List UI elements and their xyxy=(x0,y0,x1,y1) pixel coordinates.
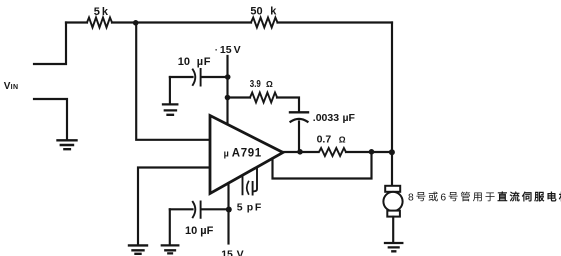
node dot V+/cap xyxy=(225,74,231,80)
svg-text:VIN: VIN xyxy=(4,81,19,92)
ground top 10uF xyxy=(163,104,177,114)
ground below Vin xyxy=(58,140,77,149)
wire motor to ground xyxy=(392,217,394,242)
node dot output/cap xyxy=(297,149,303,155)
node dot output/sense xyxy=(369,149,375,155)
svg-text:15V: 15V xyxy=(221,248,243,256)
wire V+ pin xyxy=(226,56,228,124)
wire 5k to 50k xyxy=(112,21,251,23)
resistor R4 0.7 ohm xyxy=(319,148,346,156)
wire top-left from Vin corner to 5k xyxy=(66,21,87,23)
wire 3.9 branch xyxy=(228,96,251,98)
wire 3.9 to cap xyxy=(277,98,299,112)
capacitor C4 5pF compensation xyxy=(243,168,258,195)
node dot V+/3.9 xyxy=(225,95,231,101)
svg-text:·15V: ·15V xyxy=(215,44,241,56)
svg-text:8号或6号管用于直流伺服电机: 8号或6号管用于直流伺服电机 xyxy=(408,191,561,204)
wire right vertical down to motor xyxy=(391,23,393,187)
resistor R2 50 k xyxy=(251,18,278,28)
node dot V-/cap xyxy=(226,207,232,213)
capacitor C3 .0033uF xyxy=(290,111,308,113)
wire V- pin xyxy=(227,183,229,244)
node feedback junction dot xyxy=(133,20,139,26)
wire Vin upper lead xyxy=(34,23,66,65)
wire Vin lower lead xyxy=(34,99,67,139)
svg-text:5pF: 5pF xyxy=(237,201,262,213)
wire inverting input from junction xyxy=(136,23,210,140)
svg-text:3.9Ω: 3.9Ω xyxy=(250,78,273,90)
svg-text:5k: 5k xyxy=(94,6,109,18)
capacitor C1 10uF top xyxy=(170,76,228,78)
svg-text:10µF: 10µF xyxy=(178,56,211,68)
wire bottom cap to ground xyxy=(169,209,171,244)
ground motor xyxy=(385,243,402,251)
resistor R3 3.9 ohm xyxy=(250,93,277,103)
ground bottom 10uF xyxy=(162,245,179,253)
wire non-inverting input xyxy=(138,168,210,245)
wire 50k to right corner xyxy=(278,21,393,23)
op-amp U1 uA791 xyxy=(210,116,283,194)
node dot output/motor xyxy=(389,149,395,155)
ground noninverting input xyxy=(129,245,147,253)
svg-text:10µF: 10µF xyxy=(185,225,214,237)
wire cap to ground xyxy=(169,77,171,104)
svg-text:.0033µF: .0033µF xyxy=(313,112,356,124)
wire cap to output xyxy=(298,122,300,152)
svg-text:0.7Ω: 0.7Ω xyxy=(317,133,346,145)
resistor R1 5k xyxy=(87,18,112,28)
wire sense loop xyxy=(273,152,372,179)
motor M1 xyxy=(385,186,400,192)
svg-text:50k: 50k xyxy=(250,5,277,17)
wire output xyxy=(283,151,392,153)
capacitor C2 10uF bottom xyxy=(170,208,229,210)
